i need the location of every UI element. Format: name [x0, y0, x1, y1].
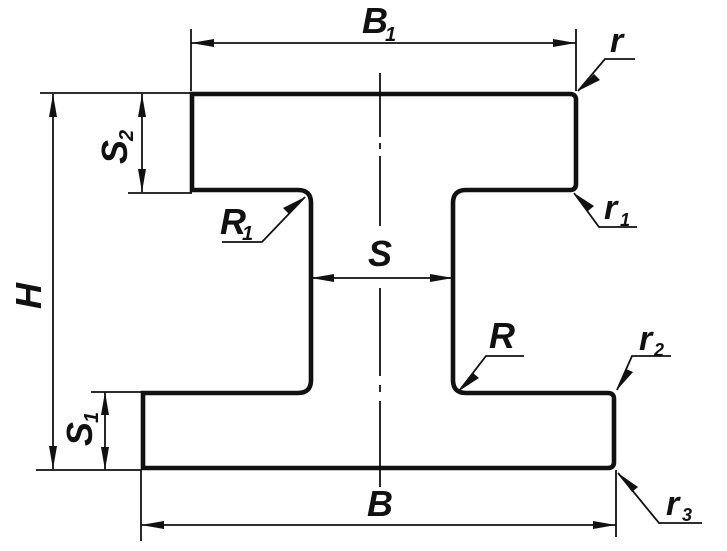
dimension H line	[52, 94, 54, 469]
label S1 (rotated)	[59, 412, 103, 446]
svg-text:B: B	[367, 483, 393, 524]
svg-text:H: H	[8, 282, 49, 309]
label S2 (rotated)	[94, 130, 138, 164]
dimension S line (web thickness)	[311, 277, 453, 279]
wire: B right extension line	[615, 470, 617, 537]
svg-text:2: 2	[653, 340, 664, 360]
wire: H bottom extension line	[36, 469, 141, 471]
svg-text:r: r	[639, 320, 654, 358]
svg-text:r: r	[604, 189, 619, 227]
svg-text:S: S	[94, 140, 135, 164]
leader R (lower-right web fillet)	[459, 356, 524, 391]
wire: S2 bottom extension line	[128, 192, 192, 194]
svg-text:1: 1	[620, 210, 630, 230]
dimension S2 line	[141, 94, 143, 192]
svg-text:3: 3	[682, 505, 692, 525]
leader r1 (under top flange, right)	[574, 193, 637, 227]
wire: B left extension line	[140, 470, 142, 541]
svg-text:2: 2	[116, 130, 138, 142]
leader r3 (bottom-right corner radius)	[618, 473, 702, 523]
wire: B1 right extension line	[575, 29, 577, 91]
svg-text:1: 1	[385, 24, 396, 46]
wire: S1 top extension line	[91, 391, 143, 393]
svg-text:1: 1	[242, 223, 253, 245]
svg-text:r: r	[610, 22, 625, 60]
wire: H top extension line	[40, 92, 190, 94]
svg-text:S: S	[59, 422, 100, 446]
leader r2 (bottom flange top-right corner)	[617, 356, 671, 390]
dimension B line	[141, 524, 616, 526]
label S	[363, 234, 395, 270]
I-beam profile outline	[143, 94, 614, 468]
svg-text:S: S	[368, 233, 392, 274]
svg-text:r: r	[666, 485, 681, 523]
dimension S1 line	[104, 392, 106, 470]
svg-text:1: 1	[81, 412, 103, 423]
wire: B1 left extension line	[190, 29, 192, 91]
centerline (vertical dash-dot axis)	[379, 73, 381, 487]
leader R1 (upper-left web fillet)	[222, 197, 305, 242]
dimension B1 line	[191, 42, 576, 44]
leader r (top-right corner radius)	[578, 59, 635, 91]
svg-text:R: R	[489, 315, 515, 356]
